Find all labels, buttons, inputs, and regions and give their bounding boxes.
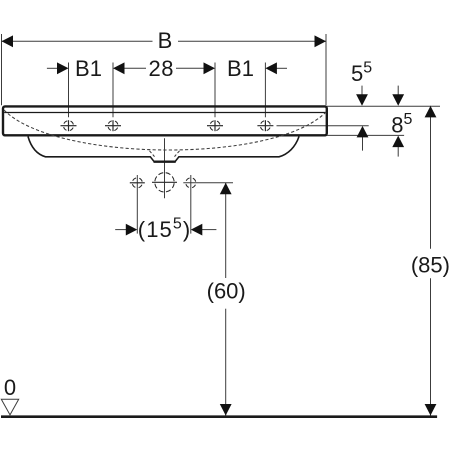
svg-text:(155): (155) (138, 215, 192, 242)
svg-text:B1: B1 (75, 56, 102, 81)
svg-text:(85): (85) (411, 252, 450, 277)
svg-text:0: 0 (4, 375, 16, 400)
svg-text:(60): (60) (207, 279, 246, 304)
svg-text:28: 28 (149, 56, 174, 81)
svg-text:B1: B1 (227, 56, 254, 81)
svg-text:B: B (158, 28, 173, 53)
